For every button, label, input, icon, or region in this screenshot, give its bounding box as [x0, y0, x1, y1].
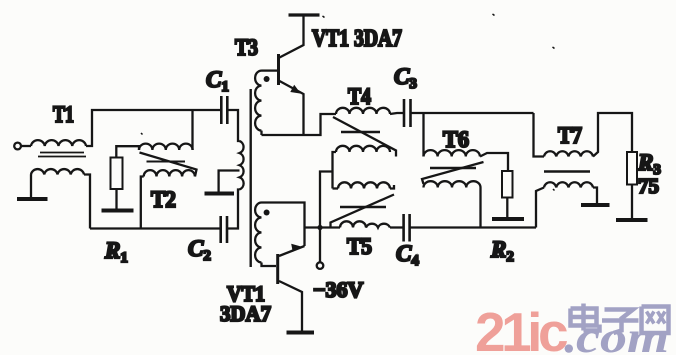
- input terminal: [14, 143, 21, 150]
- phase dot upper: [264, 76, 270, 82]
- T7 core: [544, 170, 590, 172]
- ground R2: [492, 217, 524, 221]
- T2 adjustable core diagonal: [140, 153, 197, 177]
- wire T4 primary right to C3: [390, 113, 404, 114]
- VT1 top collector: [280, 15, 304, 58]
- wire T3 lower secondary top to emitter rail bottom: [262, 203, 305, 247]
- wire -36V branch: [320, 172, 333, 263]
- resistor R1: [111, 158, 123, 190]
- transformer T6 primary coil: [424, 150, 480, 156]
- transformer T6 secondary coil: [424, 181, 481, 187]
- transformer T3 primary coil: [240, 141, 244, 189]
- transformer T3 upper secondary coil: [255, 71, 261, 131]
- ground VT1 bottom: [287, 331, 315, 335]
- transformer T4 primary coil: [336, 108, 390, 114]
- resistor R2: [502, 171, 513, 198]
- VT1 top base lead: [262, 69, 278, 71]
- VT1 bottom emitter: [279, 246, 305, 256]
- wire input to T1: [21, 145, 31, 147]
- capacitor C2: [221, 216, 227, 243]
- wire T1 primary to top rail: [86, 110, 221, 146]
- wire T3 lower secondary bottom to base: [262, 263, 277, 267]
- wire T7 primary right up over to R3: [593, 113, 632, 157]
- speck marks: [141, 14, 555, 191]
- transformer T2 primary coil: [139, 144, 193, 150]
- wire T6 primary left to top rail: [422, 113, 424, 157]
- emitter node rail top: [262, 114, 337, 135]
- capacitor C4: [404, 214, 410, 242]
- transformer T5 secondary upper coil: [338, 182, 390, 188]
- transformer T1 primary coil: [31, 140, 86, 146]
- VT1 top collector bar terminal: [289, 13, 320, 16]
- wire T1 secondary right down to bottom rail: [84, 175, 90, 229]
- wire R1 bottom: [115, 189, 117, 209]
- wire T3 upper secondary bottom to emitter rail: [260, 131, 262, 135]
- transformer T3 lower secondary coil: [255, 203, 261, 263]
- wire R3 bottom: [631, 185, 633, 219]
- watermark char wang: [642, 307, 669, 334]
- ground T7: [581, 203, 610, 207]
- wire T2 secondary left to bottom rail: [141, 177, 144, 229]
- ground R1: [102, 209, 134, 213]
- transformer T1 secondary coil: [31, 169, 84, 174]
- wire T7 secondary right to ground: [593, 188, 597, 204]
- ground R3: [616, 218, 648, 222]
- wire top rail down to T7: [534, 113, 545, 157]
- emitter node rail bottom: [305, 226, 341, 228]
- wire C4 right along bottom rail: [410, 226, 536, 228]
- wire T5 lower right to C4: [390, 226, 404, 228]
- wire T7 secondary left to bottom rail: [536, 188, 544, 228]
- T5 core: [340, 206, 386, 208]
- T3 core: [249, 89, 251, 267]
- T6 adjustable core diagonal: [422, 162, 484, 184]
- wire T4 secondary left down: [333, 152, 337, 189]
- wire bottom rail left: [90, 227, 221, 229]
- wire T1 secondary left to ground: [30, 175, 32, 198]
- wire T3 primary centre tap: [219, 171, 240, 193]
- ground T1: [17, 197, 48, 201]
- junction -36V node: [317, 225, 322, 230]
- transistor VT1 bottom : base bar: [276, 254, 279, 284]
- VT1 top emitter: [280, 81, 304, 135]
- T4 adjustable core diagonal: [333, 117, 396, 157]
- transformer T5 primary lower coil: [340, 221, 390, 227]
- wire C1 right to T3 primary top: [227, 110, 239, 141]
- transformer T7 primary coil: [544, 151, 593, 156]
- resistor R3: [627, 152, 637, 185]
- wire C2 right to T3 primary bottom: [227, 190, 240, 229]
- watermark char zi: [602, 310, 639, 334]
- wire R1 top: [116, 146, 139, 157]
- transformer T2 secondary coil: [144, 170, 195, 176]
- capacitor C3: [404, 99, 411, 127]
- T2 core: [147, 161, 186, 163]
- T6 core: [430, 167, 476, 169]
- transformer T4 secondary coil: [336, 146, 390, 152]
- T1 core: [38, 153, 86, 157]
- T5 adjustable core diagonal: [331, 195, 395, 227]
- capacitor C1: [221, 96, 227, 124]
- wire C3 to right top rail: [411, 112, 534, 114]
- VT1 bottom collector: [279, 281, 302, 331]
- wire T2 primary right up to C1 node: [191, 110, 193, 150]
- wire R2 bottom: [506, 198, 508, 218]
- transformer T7 secondary coil: [544, 182, 593, 187]
- watermark char dian: [571, 304, 600, 331]
- wire T6 secondary right to bottom rail: [479, 188, 481, 228]
- wire T5 upper left up: [333, 187, 339, 189]
- VT1 bottom emitter arrow: [291, 244, 302, 252]
- terminal -36V: [317, 262, 324, 269]
- transistor VT1 top : base bar: [277, 54, 280, 85]
- watermark .com dot: [565, 344, 573, 352]
- svg-text:21ic: 21ic: [475, 301, 567, 355]
- phase dot lower: [264, 210, 270, 216]
- ground T3 tap: [205, 192, 235, 196]
- wire T6 primary right to R2: [480, 153, 508, 171]
- T4 core: [341, 131, 380, 133]
- wire T5 upper right hook: [390, 185, 394, 189]
- svg-text:com: com: [576, 313, 669, 355]
- VT1 top emitter arrow: [290, 85, 301, 94]
